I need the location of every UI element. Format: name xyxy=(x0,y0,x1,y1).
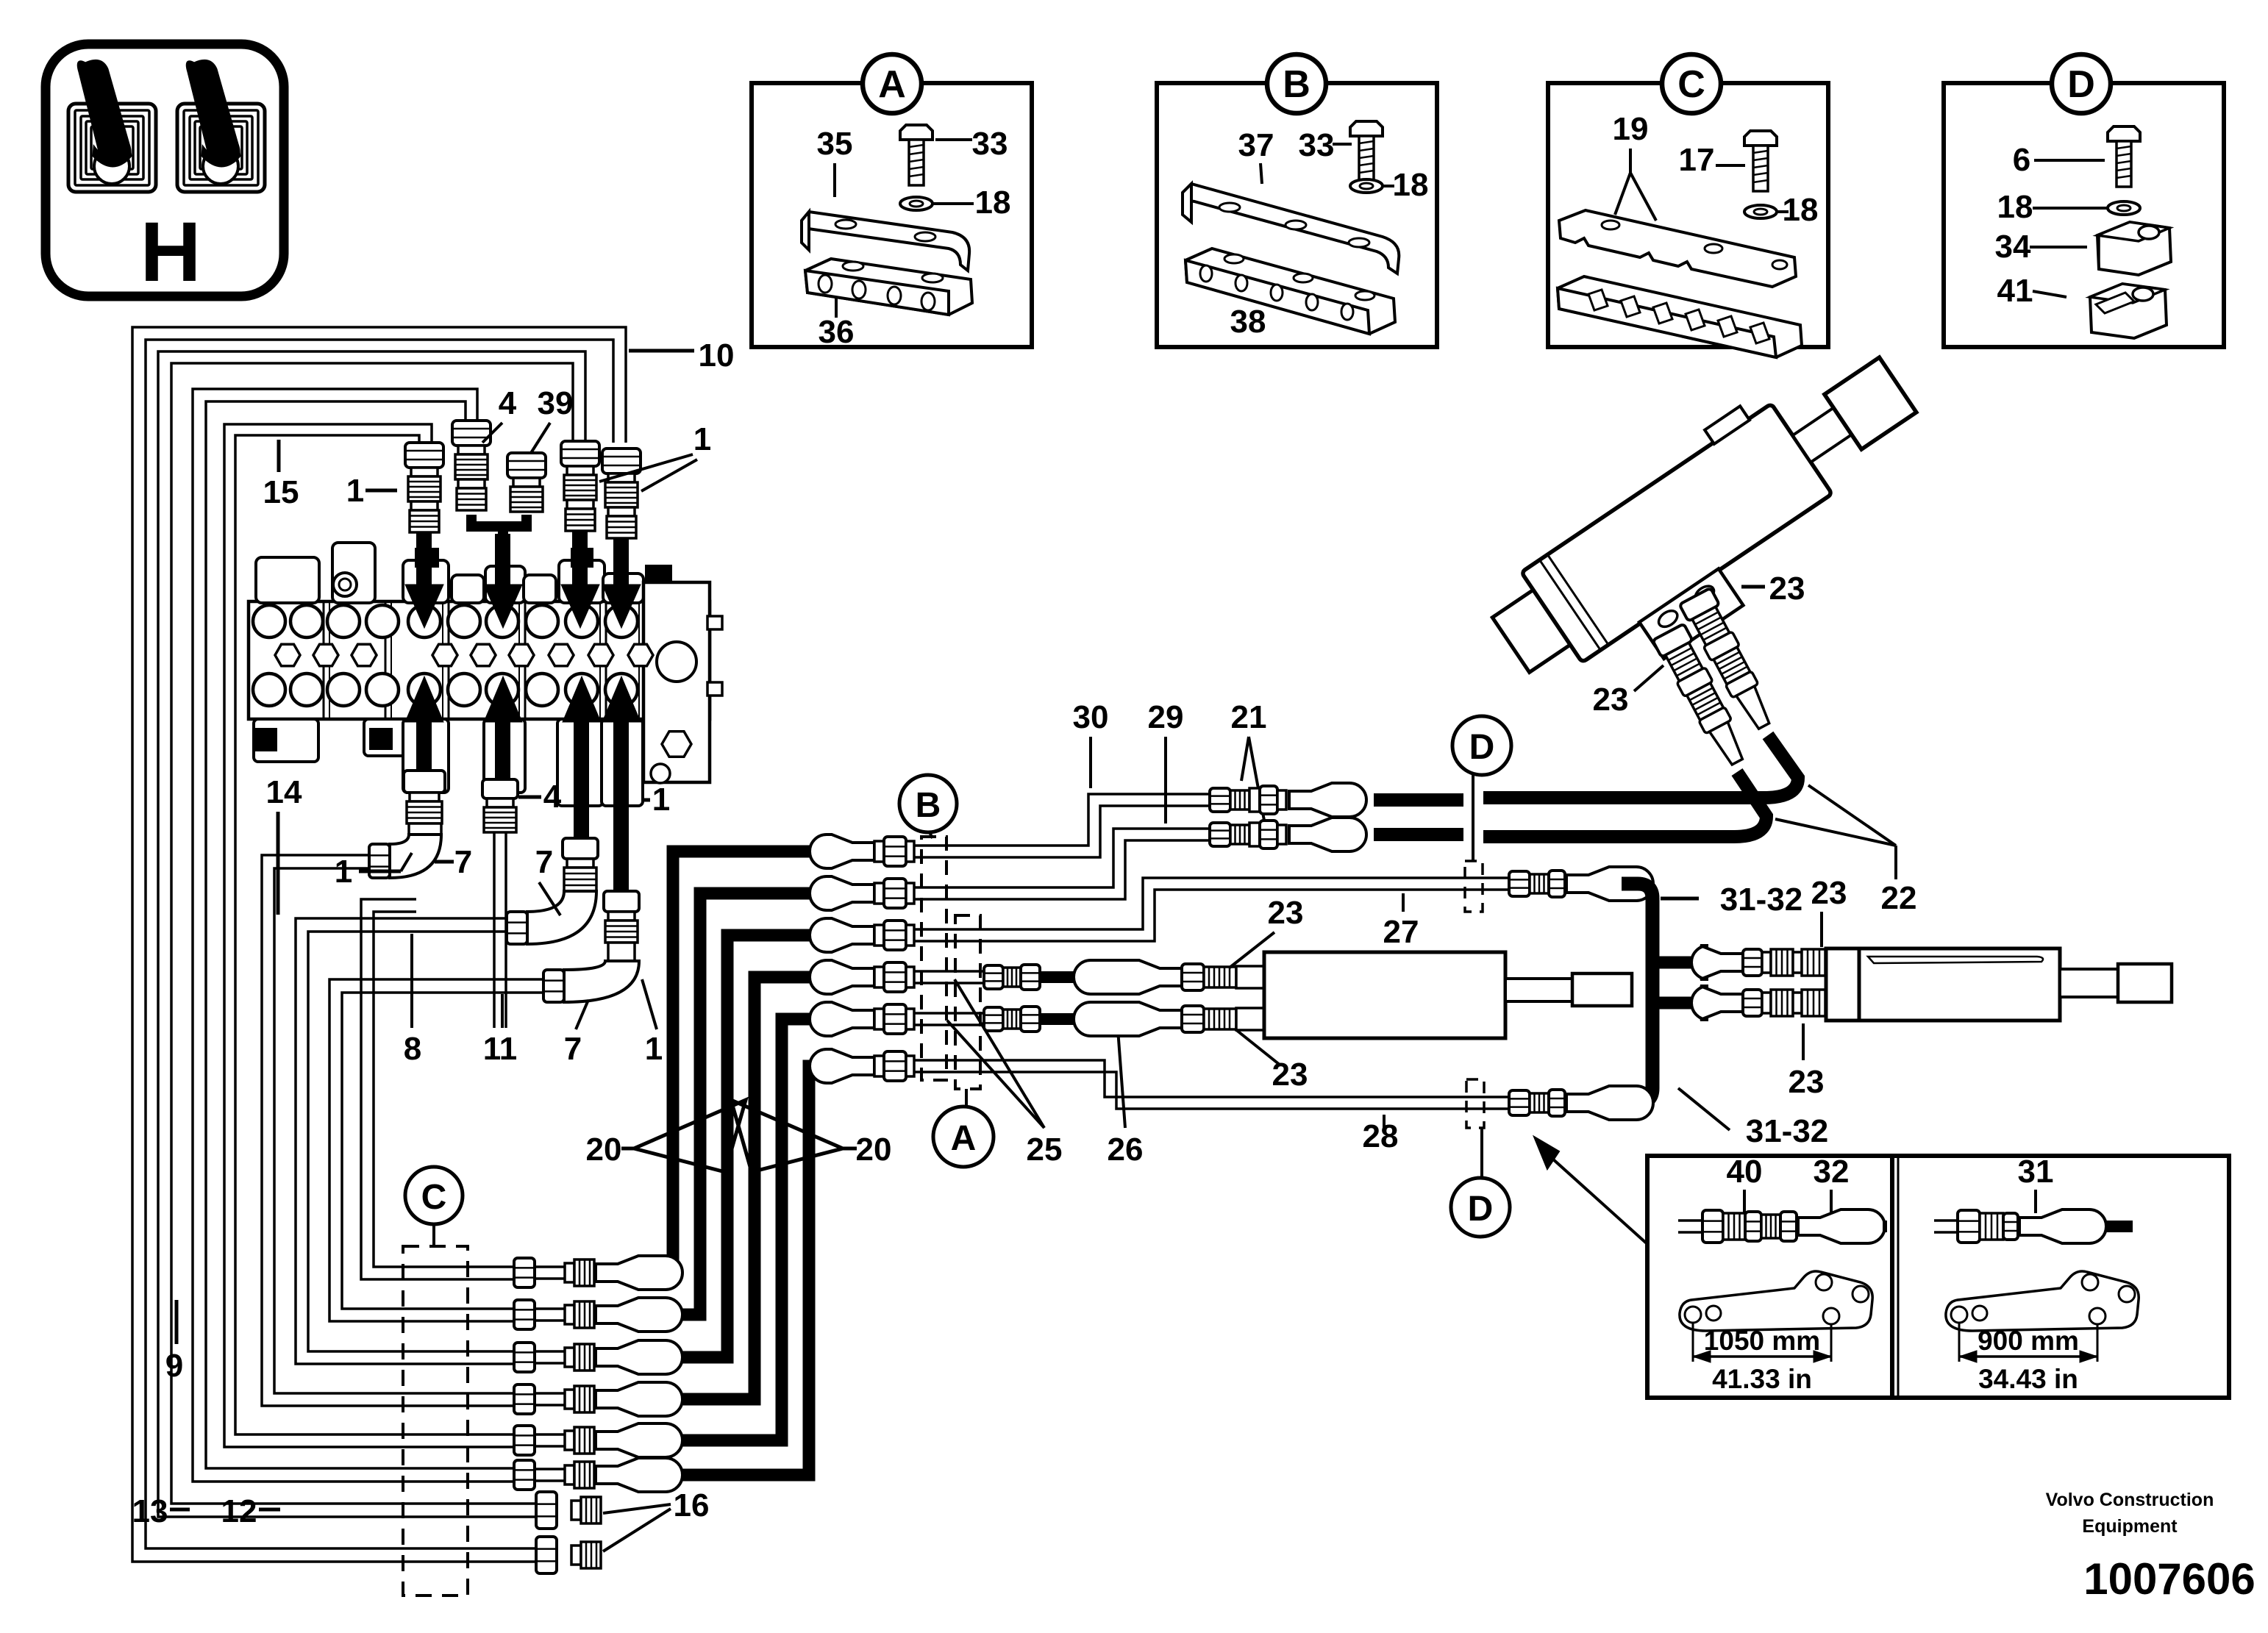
svg-text:D: D xyxy=(2067,63,2095,106)
circle D lower xyxy=(1451,1178,1510,1237)
fitting 1 above valve (right) xyxy=(602,449,641,474)
hose 20 run 5 xyxy=(680,1019,816,1440)
circle A xyxy=(933,1107,994,1167)
detail box B xyxy=(1157,83,1437,347)
svg-text:8: 8 xyxy=(404,1031,421,1067)
svg-text:23: 23 xyxy=(1811,875,1847,911)
fitting 1 above valve (mid-right) xyxy=(561,441,599,466)
svg-text:27: 27 xyxy=(1383,914,1419,950)
middle cylinder rod xyxy=(1505,979,1572,1001)
svg-text:Volvo Construction: Volvo Construction xyxy=(2046,1490,2214,1510)
right cylinder hose lower 23 xyxy=(1691,986,1743,1020)
fitting 39 above valve xyxy=(507,453,546,478)
bank AB row 5 xyxy=(810,1002,874,1036)
bank C row 3 xyxy=(514,1343,535,1372)
svg-text:41: 41 xyxy=(1997,273,2033,309)
fitting 31-32 upper xyxy=(1509,871,1530,896)
bank AB row 2 xyxy=(810,876,874,910)
bank C row 2 xyxy=(514,1300,535,1329)
chain 25 row 5 xyxy=(914,1012,984,1015)
svg-text:7: 7 xyxy=(564,1031,582,1067)
circle label D xyxy=(2052,54,2111,113)
circle label B xyxy=(1267,54,1326,113)
barrel top step xyxy=(1705,406,1750,444)
bus branch to right cylinder lower xyxy=(1652,997,1693,1010)
middle cylinder rod end xyxy=(1572,973,1632,1006)
detail box D xyxy=(1944,83,2224,347)
svg-text:1007606: 1007606 xyxy=(2083,1554,2255,1604)
svg-text:39: 39 xyxy=(538,385,574,421)
bank C row 1 xyxy=(514,1258,535,1287)
detail box A xyxy=(752,83,1032,347)
svg-text:22: 22 xyxy=(1881,880,1917,916)
right cylinder (stabilizer) xyxy=(1826,948,1859,1021)
pipe (tube C) to top fitting 4 xyxy=(193,389,514,1482)
thick hose run 29-side to top cylinder xyxy=(1374,828,1463,841)
flow arrow down 2 xyxy=(495,534,510,587)
svg-text:34: 34 xyxy=(1995,229,2031,265)
svg-text:40: 40 xyxy=(1727,1154,1763,1190)
washer 18 xyxy=(900,197,932,210)
svg-text:23: 23 xyxy=(1769,571,1805,607)
svg-text:H: H xyxy=(140,205,201,299)
valve top tabs xyxy=(256,557,319,603)
svg-text:20: 20 xyxy=(586,1132,622,1168)
svg-text:4: 4 xyxy=(499,385,517,421)
svg-text:17: 17 xyxy=(1679,142,1715,178)
bank C row 4 xyxy=(514,1384,535,1414)
right joystick lever xyxy=(187,60,239,165)
svg-text:23: 23 xyxy=(1593,682,1629,718)
pipe pair P8 stub under valve xyxy=(361,899,514,1279)
fitting 4 above valve xyxy=(452,421,491,446)
valve bottom tabs xyxy=(254,719,318,762)
right cylinder hose upper 23 xyxy=(1691,946,1743,979)
flow arrow up 3 xyxy=(574,719,589,837)
svg-text:15: 15 xyxy=(263,474,299,510)
svg-text:18: 18 xyxy=(975,185,1011,221)
plug fittings 16 row 2 xyxy=(536,1537,557,1573)
dimension 900 mm xyxy=(1958,1323,1961,1362)
flow arrow down 1 xyxy=(416,532,432,587)
leader arrow to fitting 31-32 lower xyxy=(1534,1137,1559,1169)
pipe pair P6 from elbow 7c (line 8) xyxy=(296,918,514,1364)
svg-text:26: 26 xyxy=(1108,1132,1144,1168)
bank C row 6 xyxy=(514,1460,535,1490)
pipe 28 from bank row6 xyxy=(914,1060,1509,1097)
svg-text:36: 36 xyxy=(819,314,855,350)
pipe pair P7 from elbow 7d (line 11) xyxy=(329,979,543,1321)
svg-text:35: 35 xyxy=(817,126,853,162)
rod end xyxy=(1825,357,1916,449)
svg-text:38: 38 xyxy=(1230,304,1266,340)
svg-text:11: 11 xyxy=(483,1031,518,1067)
svg-text:A: A xyxy=(878,63,906,106)
flow arrow up 1 xyxy=(416,719,432,831)
svg-text:29: 29 xyxy=(1148,699,1184,735)
svg-text:28: 28 xyxy=(1363,1118,1399,1154)
valve section dividers xyxy=(323,601,325,719)
svg-text:23: 23 xyxy=(1789,1064,1825,1100)
svg-text:16: 16 xyxy=(674,1487,710,1523)
elbow 7d xyxy=(564,961,639,1002)
valve ports top row xyxy=(253,605,285,637)
right cylinder rod end xyxy=(2118,964,2172,1002)
dashed zone D upper xyxy=(1465,861,1483,912)
label 15 xyxy=(277,440,281,472)
svg-text:9: 9 xyxy=(165,1348,183,1384)
valve top black caps xyxy=(415,548,439,568)
svg-text:25: 25 xyxy=(1027,1132,1063,1168)
bolt xyxy=(1350,121,1383,136)
svg-text:7: 7 xyxy=(454,844,472,880)
clamp block 36 xyxy=(805,259,972,315)
flow arrow down 3 xyxy=(572,531,588,587)
valve ports bottom row xyxy=(253,673,285,706)
svg-text:C: C xyxy=(421,1178,447,1217)
svg-text:14: 14 xyxy=(266,774,302,810)
hose fitting 31 xyxy=(1934,1219,1958,1222)
dimension detail box xyxy=(1647,1156,2229,1398)
dashed clamp zone B xyxy=(921,837,946,1080)
svg-text:19: 19 xyxy=(1613,111,1649,147)
svg-text:23: 23 xyxy=(1268,895,1304,931)
svg-text:6: 6 xyxy=(2013,142,2030,178)
svg-text:900 mm: 900 mm xyxy=(1978,1326,2079,1356)
washer 18 xyxy=(2108,201,2140,215)
valve hex plugs middle row xyxy=(275,644,300,665)
circle label C xyxy=(1662,54,1721,113)
bolt xyxy=(900,125,932,140)
dimension 1050 mm xyxy=(1692,1323,1694,1362)
pipe from fitting 4 down xyxy=(493,832,496,1028)
bank AB row 6 xyxy=(810,1049,874,1083)
fitting 4 below valve xyxy=(482,779,518,798)
svg-text:D: D xyxy=(1468,1190,1494,1229)
washer 18 xyxy=(1744,205,1777,218)
fitting 1 above valve (left) xyxy=(405,443,443,468)
label 10 xyxy=(629,349,694,353)
fitting stack 23 right xyxy=(1680,588,1720,621)
circle D upper xyxy=(1452,716,1511,775)
fittings 21 row A xyxy=(1210,788,1230,812)
serrated clamp bar 19 lower xyxy=(1558,276,1802,357)
clamp half 41 xyxy=(2090,284,2167,338)
pipe pair P5 from elbow 7a xyxy=(262,855,514,1406)
svg-text:Equipment: Equipment xyxy=(2082,1516,2178,1537)
bracket plate left xyxy=(1680,1271,1872,1331)
middle cylinder body xyxy=(1264,952,1505,1038)
detail box C xyxy=(1548,83,1828,347)
hose 20 run 2 xyxy=(680,893,816,1315)
pipe 30 from bank row1 xyxy=(914,794,1210,846)
thick hose run 30-side to top cylinder xyxy=(1374,793,1463,807)
serrated clamp bar 19 upper xyxy=(1559,210,1796,287)
elbow 7a xyxy=(390,835,441,878)
right cylinder rod xyxy=(2060,969,2118,997)
svg-text:D: D xyxy=(1469,728,1495,767)
clamp block 38 xyxy=(1185,249,1395,334)
flow arrow down 4 xyxy=(613,538,629,587)
dashed clamp zone C xyxy=(403,1246,468,1596)
svg-text:32: 32 xyxy=(1814,1154,1850,1190)
svg-text:31-32: 31-32 xyxy=(1746,1113,1829,1149)
svg-text:34.43 in: 34.43 in xyxy=(1978,1364,2078,1394)
cylinder port block xyxy=(1639,569,1743,659)
right joystick pad xyxy=(177,104,265,192)
bolt xyxy=(1744,131,1777,146)
svg-text:A: A xyxy=(951,1119,977,1158)
top cylinder fitting stacks group xyxy=(1644,588,1789,771)
svg-text:1: 1 xyxy=(335,854,352,890)
fitting stack below valve at 789 xyxy=(563,838,598,859)
svg-text:1050 mm: 1050 mm xyxy=(1704,1326,1820,1356)
short hose 26 xyxy=(1040,1013,1075,1025)
bracket plate right xyxy=(1946,1271,2139,1331)
svg-text:13: 13 xyxy=(132,1493,168,1529)
bank AB row 3 xyxy=(810,918,874,952)
cylinder butt end xyxy=(1492,589,1572,672)
fittings 21 row B xyxy=(1210,823,1230,846)
washer 18 xyxy=(1350,179,1383,193)
left joystick lever xyxy=(78,60,130,165)
flow arrow up 4 xyxy=(613,719,629,891)
svg-text:37: 37 xyxy=(1238,127,1274,163)
bank AB row 1 xyxy=(810,835,874,868)
svg-text:21: 21 xyxy=(1231,699,1267,735)
fitting 31-32 lower xyxy=(1509,1090,1530,1115)
bank C row 5 xyxy=(514,1426,535,1455)
label 9 xyxy=(175,1300,179,1344)
svg-text:4: 4 xyxy=(543,779,562,815)
svg-text:B: B xyxy=(916,786,941,825)
svg-text:41.33 in: 41.33 in xyxy=(1712,1364,1812,1394)
leader lines D xyxy=(2034,159,2105,162)
black U hose connecting 4 and 39 xyxy=(471,515,527,526)
fitting stack below valve at 577 xyxy=(404,771,445,793)
bus branch to right cylinder upper xyxy=(1652,957,1693,969)
svg-text:1: 1 xyxy=(645,1031,663,1067)
svg-text:20: 20 xyxy=(856,1132,892,1168)
svg-text:33: 33 xyxy=(1299,127,1335,163)
pipe 29 from bank row2 xyxy=(914,829,1210,887)
circle C xyxy=(432,1223,435,1246)
flow arrow up 2 xyxy=(495,719,510,815)
svg-text:7: 7 xyxy=(535,844,553,880)
hose 20 run 1 xyxy=(673,851,816,1273)
valve manifold body xyxy=(249,601,710,719)
svg-text:18: 18 xyxy=(1393,167,1429,203)
svg-text:18: 18 xyxy=(1997,189,2033,225)
svg-text:10: 10 xyxy=(699,337,735,374)
H control pictogram box xyxy=(46,44,284,296)
svg-text:18: 18 xyxy=(1783,192,1819,228)
hose 20 run 4 xyxy=(680,977,816,1399)
pipe 10 (tube A) to top fitting 1 right xyxy=(132,327,626,1562)
leader lines C xyxy=(1716,164,1745,167)
svg-text:1: 1 xyxy=(652,782,670,818)
dashed clamp zone A xyxy=(955,915,980,1089)
chain 25 row 4 xyxy=(914,970,984,973)
piston rod xyxy=(1793,408,1852,462)
hose 20 run 3 xyxy=(680,935,816,1357)
clamp bracket 35 xyxy=(802,212,969,271)
svg-text:1: 1 xyxy=(346,473,364,509)
fitting stack below valve at 845 xyxy=(604,891,639,912)
svg-text:31: 31 xyxy=(2018,1154,2054,1190)
valve bottom black caps xyxy=(255,728,277,751)
bank AB row 4 xyxy=(810,960,874,994)
pipe 27 from bank row3 xyxy=(914,878,1509,929)
top angled cylinder group xyxy=(1472,326,1952,726)
svg-text:C: C xyxy=(1677,63,1705,106)
circle label A xyxy=(863,54,921,113)
svg-text:12: 12 xyxy=(221,1493,257,1529)
leader lines A xyxy=(833,163,836,197)
cylinder barrel xyxy=(1522,404,1833,662)
svg-text:30: 30 xyxy=(1073,699,1109,735)
svg-text:1: 1 xyxy=(693,421,711,457)
elbow 7c xyxy=(527,891,596,944)
clamp half 34 xyxy=(2097,222,2171,275)
clamp bracket 37 xyxy=(1183,184,1399,274)
valve right end plate xyxy=(643,582,710,782)
svg-text:33: 33 xyxy=(972,126,1008,162)
fitting stack 23 left xyxy=(1652,623,1693,657)
leader lines B xyxy=(1260,163,1262,184)
bolt xyxy=(2108,126,2140,141)
svg-text:31-32: 31-32 xyxy=(1720,882,1803,918)
hose fitting 40-32 xyxy=(1678,1219,1703,1222)
svg-text:B: B xyxy=(1283,63,1310,106)
thick hose bus from 31-32 upper to lower xyxy=(1622,884,1652,1103)
valve mounting ear xyxy=(333,573,357,596)
dashed zone D lower xyxy=(1466,1079,1484,1128)
pipe 15 (tube D) to top fitting 1 left xyxy=(224,424,514,1447)
circle B xyxy=(930,832,932,838)
hose 20 run 6 xyxy=(680,1066,816,1475)
left joystick pad xyxy=(68,104,156,192)
short hose 26 xyxy=(1040,971,1075,983)
pipe (tube B) to top fitting 1 xyxy=(158,351,585,1517)
plug fittings 16 row 1 xyxy=(536,1492,557,1529)
